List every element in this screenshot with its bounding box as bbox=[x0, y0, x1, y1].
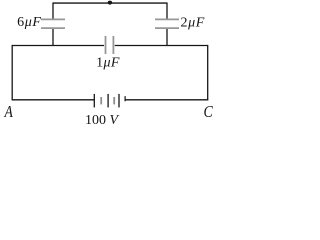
capacitor C3 1uF plates bbox=[106, 36, 114, 54]
battery V1 long plates bbox=[94, 94, 119, 108]
wire left edge (A to middle wire) bbox=[11, 45, 13, 100]
wire right branch lower (2uF bottom plate to middle wire) bbox=[166, 29, 168, 46]
node B junction dot bbox=[108, 1, 113, 5]
wire middle right segment bbox=[115, 45, 208, 47]
wire bottom right segment (battery to C) bbox=[125, 99, 208, 101]
svg-text:1μF: 1μF bbox=[96, 55, 120, 70]
wire left branch lower (6uF bottom plate to middle wire) bbox=[52, 29, 54, 46]
capacitor C1 6uF plates bbox=[41, 19, 65, 28]
wire right edge (C to middle wire) bbox=[207, 45, 209, 100]
wire middle left segment bbox=[12, 45, 104, 47]
battery V1 short plates bbox=[101, 97, 114, 104]
wire left branch upper (top wire to 6uF top plate) bbox=[52, 2, 54, 18]
capacitor C2 2uF plates bbox=[155, 19, 179, 28]
svg-text:C: C bbox=[204, 103, 214, 122]
svg-text:100 V: 100 V bbox=[85, 113, 120, 128]
wire right branch upper (top wire to 2uF top plate) bbox=[166, 2, 168, 18]
svg-text:6μF: 6μF bbox=[17, 15, 41, 30]
svg-text:2μF: 2μF bbox=[181, 16, 205, 31]
battery V1 terminal tick bbox=[124, 96, 126, 101]
wire top horizontal B bbox=[53, 2, 167, 4]
svg-text:A: A bbox=[4, 103, 14, 122]
wire bottom left segment (A to battery) bbox=[12, 99, 95, 101]
